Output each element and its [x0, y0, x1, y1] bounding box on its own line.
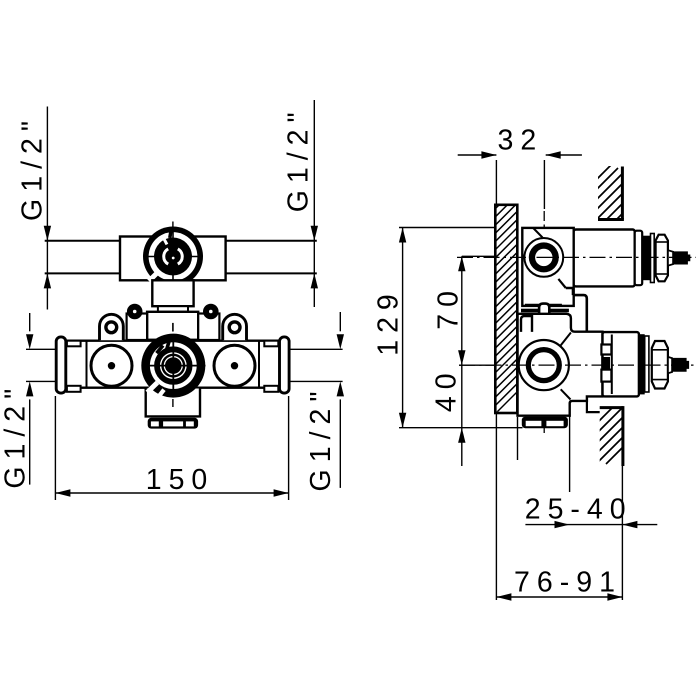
- top valve block: [120, 237, 226, 281]
- dimension G1/2" top-right: [313, 100, 315, 307]
- svg-text:G1/2": G1/2": [17, 114, 49, 221]
- dimension 150: [55, 396, 288, 500]
- node: center tick on plate: [172, 323, 174, 332]
- bottom outlet connector: [148, 418, 198, 429]
- ear (side): [521, 316, 532, 332]
- node: horizontal centerline of body: [66, 365, 280, 367]
- top valve cylinder: [574, 230, 635, 287]
- node: tick below cartridge: [172, 399, 174, 407]
- wall bottom section: [592, 404, 648, 466]
- svg-text:150: 150: [146, 464, 215, 496]
- svg-text:40: 40: [431, 366, 463, 412]
- svg-text:76-91: 76-91: [514, 566, 622, 598]
- dimension 129: [399, 228, 523, 428]
- bottom boss: [146, 389, 200, 417]
- svg-text:25-40: 25-40: [525, 494, 633, 526]
- end cap right: [280, 337, 290, 393]
- chamfer top block: [533, 228, 542, 238]
- dimension 40: [461, 365, 463, 466]
- black groove ring top: [642, 236, 650, 281]
- chamfer upper right to circle: [560, 333, 571, 347]
- svg-text:G1/2": G1/2": [305, 385, 337, 492]
- svg-text:129: 129: [372, 287, 404, 356]
- pipe sleeve bottom-left: [67, 386, 81, 392]
- dimension 70: [459, 256, 495, 365]
- lower cartridge cylinder: [603, 332, 639, 396]
- main body band: [62, 341, 285, 388]
- black groove ring bottom: [639, 334, 645, 394]
- hex nut top: [656, 235, 668, 282]
- cartridge tabs: [601, 345, 611, 355]
- mounting ear right: [223, 314, 247, 340]
- pipe sleeve top-left: [67, 341, 81, 347]
- wire: pipe witness lines bottom-left: [26, 349, 56, 381]
- connector step: [158, 306, 188, 312]
- wall top section: [590, 164, 650, 222]
- thread tip bottom: [672, 358, 689, 372]
- neck (side): [539, 304, 549, 340]
- mounting ear left: [100, 314, 124, 340]
- lower valve block (side): [518, 314, 603, 416]
- svg-text:70: 70: [433, 284, 465, 330]
- top block bottom line: [525, 304, 562, 306]
- step notch bottom right: [587, 401, 600, 412]
- white ring top: [651, 234, 655, 283]
- flange nut bottom: [652, 341, 668, 389]
- svg-text:32: 32: [498, 124, 544, 156]
- bolt column right: [198, 314, 219, 341]
- connector neck below top block: [152, 280, 193, 306]
- chamfer lower right to circle: [561, 389, 571, 399]
- dimension G1/2" bottom-left: [29, 313, 31, 485]
- stem cone top: [668, 250, 673, 266]
- top cartridge port: [143, 227, 203, 287]
- stem cone bottom: [668, 357, 672, 373]
- dimension 76-91: [496, 413, 622, 600]
- side port right: [214, 345, 255, 386]
- bolt right: [203, 304, 219, 320]
- thread tip top: [673, 251, 690, 264]
- svg-text:G1/2": G1/2": [0, 382, 31, 489]
- svg-text:G1/2": G1/2": [283, 105, 315, 212]
- top port circle: [524, 238, 563, 277]
- end cap left: [56, 337, 66, 393]
- bolt left: [127, 304, 143, 320]
- mounting plate with hatching: [480, 184, 520, 429]
- dimension 32: [458, 155, 582, 209]
- end ring of top cylinder: [635, 231, 643, 286]
- dimension G1/2" bottom-right: [339, 312, 341, 488]
- wire: top pipe lines left segment: [45, 241, 120, 274]
- chamfer block to step: [558, 279, 565, 288]
- bracket plate on body: [147, 312, 198, 340]
- bracket bar (side): [521, 309, 569, 313]
- node: vertical centerline tick above top block: [172, 222, 174, 228]
- wire: horizontal centerline top port: [457, 256, 696, 258]
- body seam right: [258, 342, 260, 388]
- top valve block (side): [522, 228, 573, 306]
- bolt column left: [127, 314, 148, 341]
- step lines under cylinder: [566, 288, 587, 332]
- wire: horizontal centerline lower port: [459, 364, 694, 366]
- dimension G1/2" top-left: [46, 107, 48, 310]
- wire: pipe witness lines bottom-right: [289, 349, 343, 381]
- pipe sleeve top-right: [264, 341, 278, 347]
- wire: top pipe lines right segment: [226, 241, 317, 274]
- white ring bottom: [645, 336, 649, 392]
- body seam left: [86, 342, 88, 388]
- lower port circle: [519, 340, 569, 390]
- pipe sleeve bottom-right: [264, 386, 278, 392]
- node: vertical centerline through valve axis: [543, 211, 545, 433]
- side port left: [91, 345, 132, 386]
- bottom outlet (side): [522, 417, 568, 429]
- dimension 25-40: [518, 414, 658, 600]
- main thermostatic cartridge: [141, 334, 205, 400]
